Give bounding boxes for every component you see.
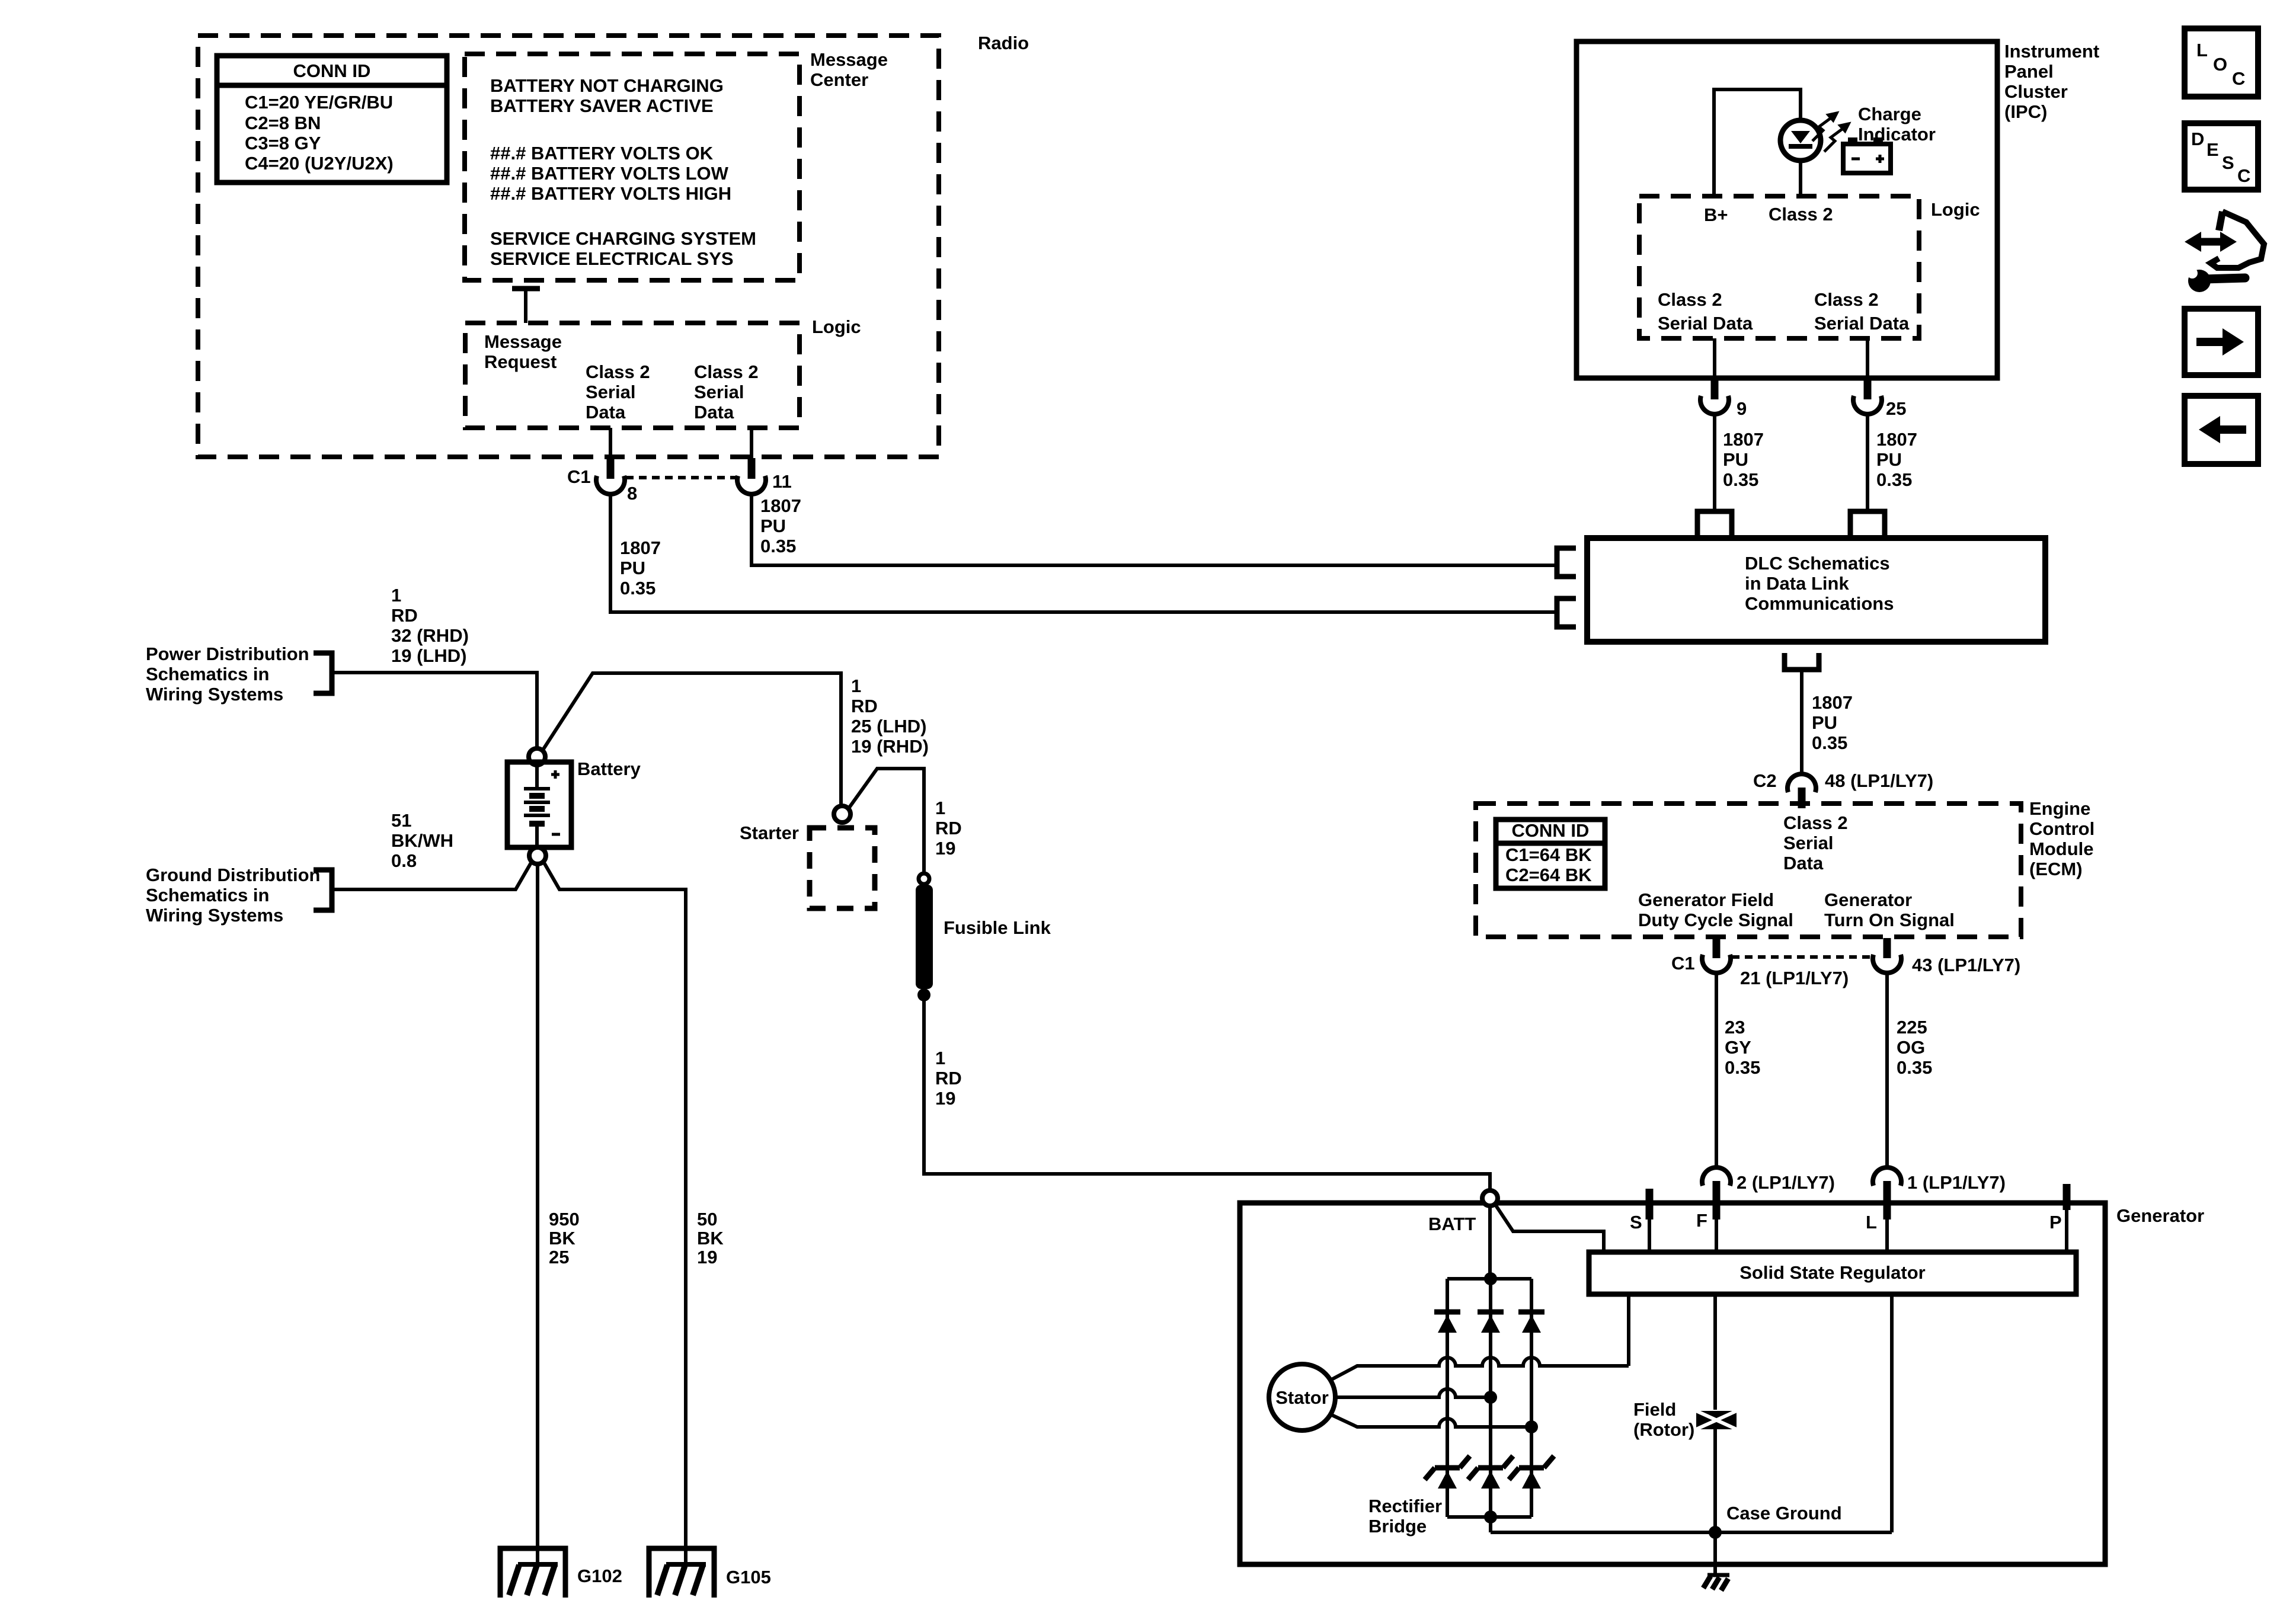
svg-text:0.35: 0.35 xyxy=(1812,732,1847,753)
Logic dashed box (Radio) xyxy=(465,316,861,428)
Solid State Regulator box xyxy=(1589,1252,2076,1294)
connector 2 (LP1/LY7) at generator F xyxy=(1702,1167,1731,1186)
svg-text:1 (LP1/LY7): 1 (LP1/LY7) xyxy=(1907,1172,2006,1193)
svg-text:G105: G105 xyxy=(726,1567,771,1587)
svg-text:in Data Link: in Data Link xyxy=(1745,573,1849,594)
svg-text:PU: PU xyxy=(1723,449,1748,470)
generator ground symbol xyxy=(1703,1532,1729,1590)
wire radio logic pin 8 xyxy=(609,428,612,458)
svg-text:Request: Request xyxy=(484,351,557,372)
wire field to case ground xyxy=(1713,1429,1717,1532)
svg-text:19: 19 xyxy=(935,838,955,859)
svg-text:SERVICE ELECTRICAL SYS: SERVICE ELECTRICAL SYS xyxy=(490,248,734,269)
svg-text:0.35: 0.35 xyxy=(1897,1057,1932,1078)
svg-text:Data: Data xyxy=(586,402,626,422)
node battery positive xyxy=(529,748,545,765)
svg-text:PU: PU xyxy=(1812,712,1837,733)
svg-text:PU: PU xyxy=(760,516,786,536)
connector C2 48 arc xyxy=(1787,774,1816,792)
svg-text:51: 51 xyxy=(391,810,411,831)
svg-text:Generator Field: Generator Field xyxy=(1638,889,1774,910)
Stator xyxy=(1269,1364,1335,1430)
svg-text:1: 1 xyxy=(935,1048,945,1068)
Battery xyxy=(507,758,641,847)
svg-text:Rectifier: Rectifier xyxy=(1368,1496,1442,1516)
svg-text:Ground Distribution: Ground Distribution xyxy=(146,865,320,885)
svg-text:23: 23 xyxy=(1725,1017,1745,1038)
icon arrow left xyxy=(2185,396,2258,464)
svg-text:32 (RHD): 32 (RHD) xyxy=(391,625,469,646)
svg-text:C1=20 YE/GR/BU: C1=20 YE/GR/BU xyxy=(245,92,393,113)
IPC pin 9 xyxy=(1713,338,1716,379)
svg-text:Panel: Panel xyxy=(2004,61,2054,82)
wire 51 BK/WH ground distribution xyxy=(332,863,531,889)
svg-text:GY: GY xyxy=(1725,1037,1751,1058)
svg-text:9: 9 xyxy=(1737,398,1747,419)
svg-text:Message: Message xyxy=(484,331,562,352)
svg-text:Schematics in: Schematics in xyxy=(146,885,269,905)
svg-text:11: 11 xyxy=(772,471,792,492)
Rectifier bridge xyxy=(1368,1272,1554,1537)
svg-text:Logic: Logic xyxy=(1931,199,1980,220)
icon arrow right xyxy=(2185,309,2258,375)
svg-text:O: O xyxy=(2213,54,2227,75)
wire 1807 PU pin25 to DLC xyxy=(1866,415,1869,511)
svg-text:1: 1 xyxy=(391,585,401,606)
svg-text:Field: Field xyxy=(1633,1399,1676,1420)
svg-text:RD: RD xyxy=(391,605,418,626)
connector dashed line ECM C1 xyxy=(1732,955,1872,959)
svg-text:Wiring Systems: Wiring Systems xyxy=(146,684,283,705)
Power Distribution reference xyxy=(146,644,332,705)
connector 1 (LP1/LY7) at generator L xyxy=(1873,1167,1901,1186)
svg-text:Serial: Serial xyxy=(1783,833,1833,853)
rectifier diode column xyxy=(1489,1279,1492,1517)
svg-text:Bridge: Bridge xyxy=(1368,1516,1427,1537)
svg-text:2 (LP1/LY7): 2 (LP1/LY7) xyxy=(1737,1172,1835,1193)
svg-text:1: 1 xyxy=(851,676,861,696)
svg-text:C4=20 (U2Y/U2X): C4=20 (U2Y/U2X) xyxy=(245,153,394,174)
ground G105 xyxy=(649,1548,771,1598)
svg-text:Stator: Stator xyxy=(1275,1387,1329,1408)
svg-text:Module: Module xyxy=(2029,838,2094,859)
battery icon xyxy=(1843,137,1891,173)
svg-text:##.# BATTERY VOLTS LOW: ##.# BATTERY VOLTS LOW xyxy=(490,163,729,184)
svg-text:OG: OG xyxy=(1897,1037,1925,1058)
CONN ID table (ECM) xyxy=(1496,820,1605,888)
svg-text:(Rotor): (Rotor) xyxy=(1633,1419,1694,1440)
Ground Distribution reference xyxy=(146,865,332,926)
connector pin 11 arc xyxy=(737,476,766,494)
wire regulator to stator sense xyxy=(1627,1294,1630,1366)
svg-text:1807: 1807 xyxy=(620,537,661,558)
node starter terminal xyxy=(834,806,850,822)
diode upper xyxy=(1478,1310,1504,1315)
svg-text:SERVICE CHARGING SYSTEM: SERVICE CHARGING SYSTEM xyxy=(490,228,756,249)
connector dashed line C1 xyxy=(626,476,736,479)
field rotor symbol xyxy=(1633,1399,1737,1440)
wire 950 BK to G102 xyxy=(536,864,539,1565)
svg-text:Engine: Engine xyxy=(2029,798,2090,819)
svg-text:(ECM): (ECM) xyxy=(2029,859,2083,879)
DLC bottom goes-to symbol xyxy=(1785,653,1819,670)
svg-text:21 (LP1/LY7): 21 (LP1/LY7) xyxy=(1740,968,1849,988)
wire B+ to charge indicator xyxy=(1714,89,1801,196)
svg-text:19 (LHD): 19 (LHD) xyxy=(391,645,466,666)
DLC goes-to symbol pin9 xyxy=(1697,511,1732,538)
Message Center dashed box xyxy=(465,49,888,280)
svg-text:P: P xyxy=(2049,1212,2062,1233)
svg-text:Generator: Generator xyxy=(1824,889,1912,910)
svg-text:Control: Control xyxy=(2029,818,2094,839)
svg-text:0.8: 0.8 xyxy=(391,850,417,871)
svg-text:Class 2: Class 2 xyxy=(1783,812,1848,833)
wire regulator to field xyxy=(1713,1294,1717,1410)
svg-text:0.35: 0.35 xyxy=(1725,1057,1760,1078)
stator phase bottom wire xyxy=(1329,1414,1531,1427)
svg-text:Class 2: Class 2 xyxy=(1658,289,1722,310)
CONN ID table (Radio) xyxy=(217,56,447,183)
svg-text:Battery: Battery xyxy=(577,758,641,779)
icon LOC xyxy=(2185,28,2258,97)
Message Request link wire xyxy=(512,289,540,323)
svg-text:CONN ID: CONN ID xyxy=(1512,820,1590,841)
Starter dashed box xyxy=(740,822,875,908)
Logic dashed box (IPC) xyxy=(1639,196,1980,338)
icon DESC xyxy=(2185,123,2258,190)
node BATT terminal xyxy=(1482,1190,1498,1206)
Generator box xyxy=(1240,1203,2204,1564)
svg-text:25: 25 xyxy=(549,1247,569,1267)
svg-text:D: D xyxy=(2191,129,2204,149)
svg-text:S: S xyxy=(1630,1212,1642,1233)
pin L xyxy=(1885,1219,1889,1252)
icon schematic usage (arrows and wrench) xyxy=(2185,212,2264,292)
svg-text:Serial: Serial xyxy=(586,382,635,402)
LED light arrows xyxy=(1812,113,1849,152)
svg-text:C: C xyxy=(2232,68,2245,89)
connector pin 11 stub xyxy=(750,428,753,458)
svg-text:S: S xyxy=(2222,152,2234,173)
svg-text:Schematics in: Schematics in xyxy=(146,664,269,684)
svg-text:1807: 1807 xyxy=(1723,429,1764,450)
svg-text:BATTERY SAVER ACTIVE: BATTERY SAVER ACTIVE xyxy=(490,95,714,116)
svg-text:C1=64 BK: C1=64 BK xyxy=(1505,844,1592,865)
svg-text:BK: BK xyxy=(697,1228,724,1249)
svg-text:225: 225 xyxy=(1897,1017,1927,1038)
svg-text:Turn On Signal: Turn On Signal xyxy=(1824,910,1955,930)
svg-text:L: L xyxy=(2196,40,2208,60)
wire 1 RD to starter xyxy=(542,673,841,806)
svg-text:E: E xyxy=(2207,139,2219,160)
svg-text:Starter: Starter xyxy=(740,822,799,843)
svg-text:Class 2: Class 2 xyxy=(1769,204,1833,225)
svg-text:C2=8 BN: C2=8 BN xyxy=(245,113,321,133)
svg-text:19: 19 xyxy=(697,1247,717,1267)
ECM pin 21 connector xyxy=(1713,938,1721,958)
svg-text:19: 19 xyxy=(935,1088,955,1109)
wire 23 GY generator field duty cycle xyxy=(1715,974,1718,1167)
svg-text:0.35: 0.35 xyxy=(1723,469,1758,490)
connector C1 pin 8 arc xyxy=(596,476,625,494)
wire BATT into rectifier xyxy=(1488,1206,1492,1279)
svg-text:(IPC): (IPC) xyxy=(2004,101,2047,122)
svg-text:Serial: Serial xyxy=(694,382,744,402)
wire regulator right to case ground xyxy=(1890,1294,1894,1532)
svg-text:Data: Data xyxy=(694,402,734,422)
svg-text:Indicator: Indicator xyxy=(1858,124,1936,145)
case ground bus xyxy=(1491,1503,1892,1539)
svg-text:Class 2: Class 2 xyxy=(586,361,650,382)
svg-text:BK: BK xyxy=(549,1228,575,1249)
svg-text:RD: RD xyxy=(935,1068,962,1089)
wire BATT sense to regulator xyxy=(1495,1205,1604,1252)
pin S xyxy=(1646,1189,1654,1219)
wire 1807 PU pin9 to DLC xyxy=(1713,415,1716,511)
svg-text:BK/WH: BK/WH xyxy=(391,830,453,851)
svg-text:8: 8 xyxy=(627,483,637,504)
svg-text:Solid State Regulator: Solid State Regulator xyxy=(1739,1262,1925,1283)
svg-text:PU: PU xyxy=(620,558,645,578)
svg-text:Instrument: Instrument xyxy=(2004,41,2099,62)
svg-text:0.35: 0.35 xyxy=(1876,469,1912,490)
node battery negative xyxy=(529,847,546,864)
stator phase middle wire xyxy=(1335,1389,1491,1397)
svg-text:Message: Message xyxy=(810,49,888,70)
svg-text:0.35: 0.35 xyxy=(620,578,655,598)
svg-text:1807: 1807 xyxy=(1876,429,1917,450)
svg-text:BATT: BATT xyxy=(1428,1214,1476,1234)
svg-text:##.# BATTERY VOLTS OK: ##.# BATTERY VOLTS OK xyxy=(490,143,714,164)
svg-text:Class 2: Class 2 xyxy=(694,361,759,382)
svg-text:C1: C1 xyxy=(567,466,591,487)
svg-text:Serial Data: Serial Data xyxy=(1814,313,1910,334)
svg-text:48 (LP1/LY7): 48 (LP1/LY7) xyxy=(1825,770,1933,791)
wire 1 RD power feed xyxy=(332,673,537,748)
wire 1 RD fusible to generator BATT xyxy=(924,1001,1490,1191)
svg-text:50: 50 xyxy=(697,1209,717,1230)
diode zener lower xyxy=(1478,1465,1503,1471)
svg-text:C2=64 BK: C2=64 BK xyxy=(1505,865,1592,885)
svg-text:C3=8 GY: C3=8 GY xyxy=(245,133,321,153)
Instrument Panel Cluster box xyxy=(1576,41,2099,378)
wire 1807 PU DLC to ECM C2 xyxy=(1800,670,1803,773)
svg-text:C1: C1 xyxy=(1671,953,1695,974)
svg-text:Case Ground: Case Ground xyxy=(1726,1503,1842,1523)
svg-text:43 (LP1/LY7): 43 (LP1/LY7) xyxy=(1912,955,2020,975)
svg-text:DLC Schematics: DLC Schematics xyxy=(1745,553,1890,574)
stator phase top wire xyxy=(1329,1358,1629,1381)
DLC left bracket lower xyxy=(1557,598,1576,627)
fusible link xyxy=(916,873,1051,1001)
ECM pin 43 connector xyxy=(1884,938,1891,958)
svg-text:C2: C2 xyxy=(1753,770,1777,791)
svg-text:Communications: Communications xyxy=(1745,593,1894,614)
wire 50 BK to G105 xyxy=(544,863,686,1565)
charge indicator LED xyxy=(1780,120,1821,196)
svg-text:Duty Cycle Signal: Duty Cycle Signal xyxy=(1638,910,1793,930)
ground G102 xyxy=(500,1548,622,1598)
svg-text:1: 1 xyxy=(935,798,945,818)
svg-text:Wiring Systems: Wiring Systems xyxy=(146,905,283,926)
Radio module dashed box xyxy=(198,33,1029,457)
svg-text:L: L xyxy=(1866,1212,1877,1233)
svg-text:C: C xyxy=(2237,165,2250,186)
svg-text:Charge: Charge xyxy=(1858,104,1921,124)
svg-text:CONN ID: CONN ID xyxy=(293,60,371,81)
wire starter to fusible link xyxy=(849,769,924,873)
diode upper xyxy=(1434,1310,1460,1315)
svg-text:Fusible Link: Fusible Link xyxy=(944,917,1051,938)
diode zener lower xyxy=(1435,1465,1460,1471)
DLC goes-to symbol pin25 xyxy=(1850,511,1885,538)
diode upper xyxy=(1518,1310,1544,1315)
svg-text:1807: 1807 xyxy=(760,495,801,516)
svg-text:25 (LHD): 25 (LHD) xyxy=(851,716,926,737)
DLC box xyxy=(1587,538,2045,642)
DLC left bracket upper xyxy=(1557,548,1576,577)
rectifier diode column xyxy=(1530,1279,1533,1517)
rectifier diode column xyxy=(1446,1279,1449,1517)
svg-text:Generator: Generator xyxy=(2116,1205,2204,1226)
pin P xyxy=(2063,1184,2071,1210)
svg-text:Logic: Logic xyxy=(812,316,861,337)
svg-text:##.# BATTERY VOLTS HIGH: ##.# BATTERY VOLTS HIGH xyxy=(490,183,731,204)
svg-text:RD: RD xyxy=(851,696,878,716)
svg-text:Cluster: Cluster xyxy=(2004,81,2068,102)
svg-text:Center: Center xyxy=(810,69,868,90)
wire 1807 PU from pin 11 to DLC xyxy=(752,495,1556,565)
svg-text:G102: G102 xyxy=(577,1566,622,1586)
svg-text:Serial Data: Serial Data xyxy=(1658,313,1753,334)
wire 1807 PU from pin 8 to DLC xyxy=(610,495,1556,612)
svg-text:950: 950 xyxy=(549,1209,580,1230)
svg-text:0.35: 0.35 xyxy=(760,536,796,556)
diode zener lower xyxy=(1519,1465,1544,1471)
svg-text:PU: PU xyxy=(1876,449,1902,470)
svg-text:F: F xyxy=(1696,1210,1707,1231)
svg-text:Radio: Radio xyxy=(978,33,1029,53)
connector C1 pin 8 stub xyxy=(607,458,615,479)
Engine Control Module dashed box xyxy=(1476,798,2094,937)
svg-text:RD: RD xyxy=(935,818,962,838)
svg-text:BATTERY NOT CHARGING: BATTERY NOT CHARGING xyxy=(490,75,724,96)
svg-text:19 (RHD): 19 (RHD) xyxy=(851,736,929,757)
svg-text:B+: B+ xyxy=(1704,204,1728,225)
wire 225 OG generator turn on xyxy=(1885,974,1889,1167)
IPC pin 25 xyxy=(1866,338,1869,379)
svg-text:Class 2: Class 2 xyxy=(1814,289,1879,310)
svg-text:Power Distribution: Power Distribution xyxy=(146,644,309,664)
svg-text:25: 25 xyxy=(1886,398,1906,419)
svg-text:1807: 1807 xyxy=(1812,692,1853,713)
pin F xyxy=(1715,1219,1718,1252)
svg-text:Data: Data xyxy=(1783,853,1824,873)
